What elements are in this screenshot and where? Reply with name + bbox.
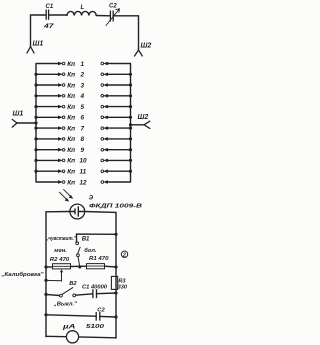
contact Кп 6 pin arrow right <box>104 116 108 119</box>
wire C1 to L <box>49 14 67 16</box>
contact Кп 11 pin arrow left <box>58 170 62 173</box>
contact Кп 3 wire left <box>36 84 59 86</box>
svg-text:Кп: Кп <box>67 93 75 100</box>
svg-text:Кп: Кп <box>67 72 75 79</box>
svg-text:Ш2: Ш2 <box>141 43 152 50</box>
node B1 to rail <box>114 233 117 236</box>
svg-text:„Калибровка": „Калибровка" <box>0 271 43 278</box>
contact Кп 7 wire left <box>36 127 59 129</box>
node left bus row 6 <box>34 116 37 119</box>
node left bus row 9 <box>34 148 37 151</box>
contact Кп 5 socket left <box>62 105 65 108</box>
node C1 right rail <box>114 291 117 294</box>
svg-text:12: 12 <box>80 179 88 186</box>
wire photocell left to left rail <box>46 212 116 339</box>
switch B2 wire from left rail <box>46 288 116 296</box>
contact Кп 10 wire left <box>36 159 59 161</box>
svg-text:Кп: Кп <box>67 169 75 176</box>
node left bus row 8 <box>34 137 37 140</box>
node left bus row 7 <box>34 127 37 130</box>
inductor L <box>67 11 96 15</box>
contact Кп 1 socket right <box>101 62 104 65</box>
svg-text:В1: В1 <box>82 236 90 242</box>
capacitor C1 40000 <box>93 289 97 298</box>
contact Кп 9 wire left <box>36 149 59 151</box>
wire B1 contact to R1/R2 node <box>78 257 80 267</box>
svg-text:Кп: Кп <box>67 82 75 89</box>
switch B2 contact left <box>60 294 63 297</box>
contact Кп 9 wire right <box>107 149 130 151</box>
svg-text:5: 5 <box>81 104 85 111</box>
node right bus row 7 <box>129 127 132 130</box>
contact Кп 7 wire right <box>107 127 130 129</box>
connector Ш1 top pin fork <box>27 47 34 54</box>
switch B2 arm <box>62 288 73 295</box>
wire C2 to Ш2 corner <box>113 16 138 50</box>
connector Ш2 top pin fork <box>135 50 143 56</box>
svg-text:Кп: Кп <box>67 125 75 132</box>
svg-text:9: 9 <box>81 147 85 154</box>
svg-text:Ш1: Ш1 <box>33 41 44 48</box>
wire R1 to right rail <box>105 265 117 268</box>
resistor R1 470 <box>87 264 105 269</box>
node Ш1 junction <box>34 121 37 124</box>
left bus wire (middle section) <box>35 64 37 183</box>
left rail wire <box>45 212 47 337</box>
resistor R2 470 <box>53 264 71 269</box>
wire photocell right to right rail <box>85 211 116 214</box>
contact Кп 6 socket right <box>101 116 104 119</box>
contact Кп 3 pin arrow left <box>58 84 62 87</box>
contact Кп 6 socket left <box>62 116 65 119</box>
contact Кп 12 socket right <box>101 181 104 184</box>
svg-text:4: 4 <box>80 93 85 100</box>
svg-text:µА: µА <box>61 324 76 331</box>
node R1 right <box>114 265 117 268</box>
contact Кп 4 socket right <box>101 95 104 98</box>
contact Кп 4 socket left <box>62 95 65 98</box>
contact Кп 5 pin arrow left <box>58 105 62 108</box>
svg-text:47: 47 <box>43 24 55 30</box>
node left bus row 11 <box>34 170 37 173</box>
light arrows onto photocell <box>59 189 73 201</box>
wire C1 to right rail <box>96 292 116 295</box>
svg-text:7: 7 <box>81 125 85 132</box>
svg-text:Кп: Кп <box>67 61 75 68</box>
contact Кп 1 pin arrow right <box>104 62 108 65</box>
contact Кп 2 wire right <box>107 73 130 75</box>
photocell Э ФКДП 1009-В <box>70 204 85 219</box>
contact Кп 7 pin arrow left <box>58 127 62 130</box>
potentiometer R2 wiper <box>46 272 62 281</box>
svg-text:Кп: Кп <box>67 136 75 143</box>
terminal 2 circled <box>121 251 127 257</box>
wire bottom left <box>46 336 116 338</box>
contact Кп 7 socket right <box>101 127 104 130</box>
node left bus row 4 <box>34 94 37 97</box>
svg-text:8: 8 <box>81 136 85 143</box>
node C2 left rail <box>44 313 47 316</box>
svg-text:С1 40000: С1 40000 <box>82 284 108 290</box>
svg-text:3: 3 <box>81 82 85 89</box>
svg-text:2: 2 <box>80 72 85 79</box>
svg-text:В2: В2 <box>69 281 77 287</box>
node right bus row 10 <box>129 159 132 162</box>
svg-text:ФКДП 1009-В: ФКДП 1009-В <box>89 204 142 210</box>
node right bus row 11 <box>129 170 132 173</box>
contact Кп 1 wire left <box>36 63 59 65</box>
contact Кп 3 socket right <box>101 84 104 87</box>
contact Кп 11 socket left <box>62 170 65 173</box>
contact Кп 8 wire right <box>107 138 130 140</box>
contact Кп 7 socket left <box>62 127 65 130</box>
contact Кп 5 pin arrow right <box>104 105 108 108</box>
contact Кп 5 socket right <box>101 105 104 108</box>
wire B1 bracket to right rail <box>77 234 117 242</box>
contact Кп 4 wire left <box>36 95 59 97</box>
contact Кп 12 pin arrow left <box>58 181 62 184</box>
contact Кп 11 wire left <box>36 170 59 172</box>
contact Кп 3 socket left <box>62 84 65 87</box>
contact Кп 1 socket left <box>62 62 65 65</box>
contact Кп 6 pin arrow left <box>58 116 62 119</box>
contact Кп 8 pin arrow left <box>58 137 62 140</box>
svg-text:мен.: мен. <box>54 248 67 254</box>
node left bus row 3 <box>34 83 37 86</box>
wire C2 row <box>46 315 116 317</box>
switch B2 contact right <box>73 294 76 297</box>
right rail wire <box>115 212 117 338</box>
contact Кп 8 wire left <box>36 138 59 140</box>
svg-text:Кп: Кп <box>67 179 75 186</box>
contact Кп 8 socket right <box>101 138 104 141</box>
connector Ш1 pin middle <box>17 122 36 124</box>
node right bus row 3 <box>129 83 132 86</box>
contact Кп 11 pin arrow right <box>104 170 108 173</box>
svg-text:Кп: Кп <box>67 158 75 165</box>
svg-text:С2: С2 <box>97 307 105 313</box>
node C2 right rail <box>114 315 117 318</box>
contact Кп 2 pin arrow left <box>58 73 62 76</box>
node switch arm junction <box>78 265 81 268</box>
svg-text:6: 6 <box>81 115 85 122</box>
switch B1 arm <box>78 247 81 254</box>
contact Кп 10 pin arrow right <box>104 159 108 162</box>
contact Кп 10 socket left <box>62 159 65 162</box>
wire R2 to R1 <box>71 265 87 267</box>
contact Кп 4 pin arrow left <box>58 94 62 97</box>
svg-text:R1 470: R1 470 <box>89 256 109 262</box>
node right bus row 2 <box>129 73 132 76</box>
node left bus row 5 <box>34 105 37 108</box>
svg-text:R2 470: R2 470 <box>50 257 70 263</box>
node R2 left <box>44 265 47 268</box>
capacitor C1 <box>46 10 48 19</box>
contact Кп 7 pin arrow right <box>104 127 108 130</box>
svg-text:10: 10 <box>80 158 88 165</box>
contact Кп 9 pin arrow right <box>104 148 108 151</box>
svg-text:Кп: Кп <box>67 104 75 111</box>
wire left rail to R2 <box>46 265 116 268</box>
svg-text:2: 2 <box>122 252 126 258</box>
contact Кп 4 wire right <box>107 95 130 97</box>
contact Кп 1 wire right <box>107 63 130 65</box>
contact Кп 4 pin arrow right <box>104 94 108 97</box>
capacitor C2 5100 <box>96 312 100 321</box>
node wiper to rail <box>44 279 47 282</box>
svg-text:11: 11 <box>80 169 87 176</box>
contact Кп 11 wire right <box>107 170 130 172</box>
contact Кп 3 pin arrow right <box>104 84 108 87</box>
svg-text:Ш2: Ш2 <box>138 114 149 121</box>
wire L to C2 <box>96 15 110 17</box>
capacitor C2 variable <box>110 11 113 21</box>
node right bus row 5 <box>129 105 132 108</box>
contact Кп 2 socket right <box>101 73 104 76</box>
svg-text:1: 1 <box>81 61 85 68</box>
node right bus row 4 <box>129 94 132 97</box>
svg-text:Кп: Кп <box>67 115 75 122</box>
contact Кп 5 wire left <box>36 106 59 108</box>
microammeter µA <box>66 331 78 343</box>
node right bus row 6 <box>129 116 132 119</box>
contact Кп 9 socket right <box>101 148 104 151</box>
wire B2 to C1 <box>76 294 93 295</box>
contact Кп 9 pin arrow left <box>58 148 62 151</box>
wire top left from Ш1 corner to C1 <box>31 15 46 47</box>
svg-text:L: L <box>81 5 85 11</box>
right bus wire (middle section) <box>130 64 132 183</box>
node right bus row 8 <box>129 137 132 140</box>
node left bus row 2 <box>34 73 37 76</box>
node left bus row 10 <box>34 159 37 162</box>
contact Кп 12 wire left <box>36 181 59 183</box>
node B2 left rail <box>44 293 47 296</box>
svg-text:бол.: бол. <box>84 247 97 254</box>
contact Кп 2 socket left <box>62 73 65 76</box>
contact Кп 1 pin arrow left <box>58 62 62 65</box>
contact Кп 3 wire right <box>107 84 130 86</box>
svg-text:„чувствит.": „чувствит." <box>45 236 76 242</box>
contact Кп 2 pin arrow right <box>104 73 108 76</box>
resistor R3 330 <box>111 276 117 289</box>
contact Кп 12 wire right <box>107 181 130 183</box>
svg-text:„Выкл.": „Выкл." <box>53 302 77 308</box>
contact Кп 9 socket left <box>62 148 65 151</box>
contact Кп 10 socket right <box>101 159 104 162</box>
contact Кп 2 wire left <box>36 73 59 75</box>
svg-text:330: 330 <box>118 284 128 290</box>
svg-text:Ш1: Ш1 <box>13 111 24 118</box>
svg-text:C2: C2 <box>109 4 117 10</box>
contact Кп 12 socket left <box>62 181 65 184</box>
wire bottom right <box>79 336 116 339</box>
contact Кп 5 wire right <box>107 106 130 108</box>
switch B1 pole <box>76 242 79 245</box>
contact Кп 12 pin arrow right <box>104 181 108 184</box>
svg-text:Кп: Кп <box>67 147 75 154</box>
connector Ш2 pin middle <box>131 124 145 126</box>
node right bus row 9 <box>129 148 132 151</box>
svg-text:5100: 5100 <box>86 324 105 330</box>
svg-text:C1: C1 <box>46 4 54 10</box>
node Ш2 junction <box>129 123 132 126</box>
contact Кп 8 socket left <box>62 138 65 141</box>
contact Кп 8 pin arrow right <box>104 137 108 140</box>
svg-text:Э: Э <box>89 196 94 202</box>
contact Кп 10 wire right <box>107 159 130 161</box>
contact Кп 10 pin arrow left <box>58 159 62 162</box>
contact Кп 11 socket right <box>101 170 104 173</box>
switch B1 lower contact <box>77 254 80 257</box>
contact Кп 6 wire left <box>36 116 59 118</box>
contact Кп 6 wire right <box>107 116 130 118</box>
